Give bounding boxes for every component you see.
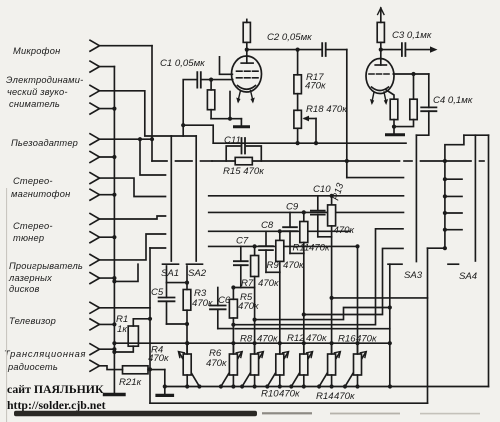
node pot — [355, 341, 359, 345]
tube V1 screen stub — [220, 57, 233, 75]
wire SA1 contact y248 — [150, 247, 166, 249]
input jack J10 — [90, 232, 100, 243]
tube V1 anode — [241, 57, 253, 64]
ground V2 — [387, 133, 404, 136]
resistor R2 1k — [123, 366, 149, 374]
wire ch2 to ground bus — [100, 66, 115, 68]
C6 label — [218, 295, 231, 306]
node pot — [185, 341, 189, 345]
wire SA3 pole drop — [415, 135, 417, 261]
svg-text:Трансляционная: Трансляционная — [4, 349, 86, 359]
node ground bus ch8 — [112, 193, 116, 197]
input jack J7 — [90, 173, 100, 184]
tube V2 grid dashes — [369, 73, 389, 75]
capacitor C10 — [311, 211, 325, 215]
SA4 contact stub y196 — [445, 195, 462, 197]
wire C8 riser — [265, 231, 267, 246]
svg-text:Пьезоадаптер: Пьезоадаптер — [11, 138, 78, 148]
capacitor C9 — [283, 227, 297, 231]
node line-a R13 — [330, 296, 334, 300]
potentiometer R16 — [345, 343, 366, 386]
capacitor C4 — [416, 74, 436, 135]
wire ch13 TV input — [100, 307, 151, 309]
R4 label — [148, 345, 169, 365]
capacitor C2 — [322, 43, 347, 56]
svg-text:R21к: R21к — [119, 377, 142, 388]
wire zigzag to SA4 bus — [445, 135, 464, 248]
node cathode rail — [228, 117, 232, 121]
svg-text:SA1: SA1 — [161, 268, 179, 279]
svg-text:Проигрыватель: Проигрыватель — [9, 261, 83, 271]
svg-text:R14: R14 — [316, 391, 334, 402]
node C1 feed — [181, 123, 185, 127]
svg-text:1к: 1к — [117, 324, 127, 335]
wire ch4 — [100, 108, 115, 110]
site url — [7, 398, 106, 412]
svg-text:470к: 470к — [283, 260, 304, 271]
potentiometer R14 — [319, 343, 340, 386]
node C10 top — [330, 194, 334, 198]
wire bus L4 — [209, 245, 358, 247]
wire ch10 — [100, 236, 115, 238]
wire bottom return y403 — [150, 402, 428, 404]
input jack J5 — [90, 134, 100, 145]
capacitor C6 — [210, 306, 226, 310]
svg-text:R16: R16 — [338, 334, 356, 345]
wire C8 block bottom — [266, 271, 280, 273]
wire cathode-grid rail — [211, 118, 241, 120]
input jack J2 — [90, 61, 100, 72]
R14 label — [316, 391, 355, 402]
capacitor C1 — [183, 72, 213, 143]
node V1 grid — [209, 78, 213, 82]
wire to ground V1 — [240, 119, 242, 126]
input jack J3 — [90, 85, 100, 96]
svg-text:C4 0,1мк: C4 0,1мк — [433, 95, 473, 106]
wire ch7 to SA1 contact — [100, 178, 166, 196]
svg-text:Телевизор: Телевизор — [9, 316, 56, 326]
switch SA4 throw dash — [448, 263, 459, 265]
wire drop to pot R16 — [357, 246, 359, 354]
input jack J11 — [90, 254, 100, 265]
scan border faint tail — [262, 412, 312, 414]
svg-text:470к: 470к — [334, 391, 355, 402]
svg-text:магнитофон: магнитофон — [11, 189, 70, 199]
wire ground bus vertical — [113, 67, 115, 393]
input jack J1 — [90, 40, 100, 51]
capacitor C11 — [226, 138, 261, 161]
node pot — [253, 341, 257, 345]
wire right bracket down — [488, 135, 490, 386]
svg-text:470к: 470к — [257, 334, 278, 345]
staircase wire S3 riser to SA3 contact — [233, 229, 403, 325]
node C7R5 join — [231, 285, 235, 289]
node rail v390 — [388, 384, 392, 388]
wire mic down — [151, 46, 153, 161]
wire drop to pot R14 — [331, 237, 333, 354]
C11 label — [224, 135, 241, 146]
wire V2 plate up — [380, 50, 382, 60]
input label Проигрыватель лазерных дисков — [8, 261, 83, 294]
svg-text:тюнер: тюнер — [13, 233, 44, 243]
C8 label — [261, 220, 304, 271]
staircase wire S2 riser to SA3 contact — [304, 248, 403, 314]
node ground bus ch12 — [112, 276, 116, 280]
node R17 tap — [296, 48, 300, 52]
input jack J8 — [90, 189, 100, 200]
node R3 bottom — [185, 322, 189, 326]
svg-text:SA4: SA4 — [459, 271, 477, 282]
input jack J14 — [90, 319, 100, 330]
wire ch15 — [100, 348, 115, 350]
tube V2 anode — [375, 60, 386, 66]
node R16 top — [355, 244, 359, 248]
node SA2 block — [185, 281, 189, 285]
wire C7 riser — [240, 246, 242, 261]
tube V1 heater arrows — [236, 91, 255, 104]
wire SA3 output drop v390 — [389, 264, 391, 386]
wire R3 to pot R4 — [186, 324, 188, 354]
R6 label — [206, 348, 227, 369]
resistor R9 — [279, 231, 281, 240]
resistor R20 grid V1 — [207, 80, 214, 119]
node rail G2 — [163, 384, 167, 388]
RC block C6 R5 — [210, 288, 237, 355]
wire drop to pot R10 — [279, 272, 281, 354]
node ground bus ch14 — [112, 322, 116, 326]
R16 label — [338, 334, 377, 345]
wire stub y177.6 — [347, 177, 404, 179]
node pot — [343, 384, 347, 388]
capacitor C3 — [402, 43, 434, 56]
node ground bus ch15 — [112, 347, 116, 351]
input label Телевизор — [9, 316, 56, 326]
svg-text:470к: 470к — [309, 243, 330, 254]
wire R15 to right — [252, 160, 399, 162]
wire V1 grid left — [202, 79, 232, 81]
wire C7 block bottom — [233, 287, 254, 289]
R18 label — [306, 104, 347, 115]
resistor R5 — [229, 299, 237, 318]
capacitor C7 — [234, 261, 248, 265]
node V2 plate — [379, 48, 383, 52]
SA4 contact stub y213 — [445, 212, 462, 214]
resistor R15 — [235, 157, 252, 164]
svg-text:лазерных: лазерных — [8, 273, 52, 283]
input jack J4 — [90, 103, 100, 114]
node V2 cathode gnd — [392, 125, 396, 129]
svg-text:C6: C6 — [218, 295, 231, 306]
tube V1 envelope — [232, 56, 262, 92]
switch SA3 throw dash — [388, 263, 402, 265]
node ground bus y343 — [112, 341, 116, 345]
wire V2 grid right — [393, 73, 429, 75]
node ground bus y352 — [112, 350, 116, 354]
svg-text:C9: C9 — [286, 202, 299, 213]
node SA4 stub2 — [443, 194, 447, 198]
svg-text:сайт ПАЯЛЬНИК: сайт ПАЯЛЬНИК — [7, 382, 104, 396]
wire bus L2 — [209, 211, 404, 213]
node SA4 stub3 — [443, 211, 447, 215]
SA2 label — [188, 268, 207, 279]
output arrow — [430, 46, 438, 52]
wire x164 down to ground — [164, 370, 166, 395]
RC block C8 R9 — [259, 231, 284, 354]
node pot — [278, 341, 282, 345]
wire right bracket top — [464, 134, 489, 136]
svg-text:Стерео-: Стерео- — [13, 176, 53, 186]
staircase wire S1 — [255, 308, 390, 320]
input label Трансляционная радиосеть — [4, 349, 86, 372]
RC block C7 R7 — [233, 246, 258, 354]
wire SA4 return drop — [427, 248, 429, 403]
node SA4 stub4 — [443, 228, 447, 232]
svg-text:470к: 470к — [238, 301, 259, 312]
wire R17-R18 — [297, 94, 299, 111]
wire vertical x150 — [149, 248, 151, 403]
input jack J13 — [90, 302, 100, 313]
wire bus L1 — [209, 195, 404, 197]
node pot — [265, 384, 269, 388]
wire ch12 — [100, 277, 115, 279]
svg-text:C7: C7 — [236, 236, 249, 247]
wire drop to pot R12 — [303, 253, 305, 354]
svg-text:C2 0,05мк: C2 0,05мк — [267, 32, 312, 43]
svg-text:дисков: дисков — [9, 284, 40, 294]
R15 label — [223, 166, 264, 177]
wire R2 right — [148, 369, 165, 371]
capacitor C5 — [159, 283, 175, 324]
input jack J12 — [90, 273, 100, 284]
potentiometer R10 — [267, 343, 288, 386]
wire bus spur to switch area — [114, 264, 138, 281]
wire link y341 — [114, 342, 390, 344]
node SA4 bus y161 — [443, 159, 447, 163]
svg-text:ческий звуко-: ческий звуко- — [7, 87, 68, 97]
node bus spur — [112, 279, 116, 283]
input label Электродинамический звукосниматель — [6, 75, 83, 109]
wire bus line y143 — [213, 142, 406, 144]
wire R17 top — [297, 50, 299, 75]
svg-text:R18 470к: R18 470к — [306, 104, 347, 115]
svg-text:R8: R8 — [240, 334, 253, 345]
wire C5R3 bottom rail — [167, 323, 188, 325]
svg-text:SA3: SA3 — [404, 270, 423, 281]
svg-text:470к: 470к — [334, 225, 355, 236]
ground V1 — [235, 125, 249, 128]
SA4 contact stub y179 — [445, 178, 462, 180]
node V1 plate — [245, 48, 249, 52]
node pot — [330, 341, 334, 345]
label band top line — [235, 328, 389, 330]
node ground bus ch4 — [112, 107, 116, 111]
wire ch16 to R2 — [100, 366, 123, 370]
svg-text:R10: R10 — [261, 389, 279, 400]
tube V1 cathode — [238, 86, 256, 90]
input label Микрофон — [13, 46, 60, 56]
potentiometer R6 — [221, 343, 242, 386]
switch gang dashed link right — [404, 160, 412, 162]
node pot — [231, 341, 235, 345]
C1 label — [160, 58, 205, 69]
input jack J9 — [90, 214, 100, 225]
ground G1 — [105, 393, 125, 396]
svg-text:470к: 470к — [306, 333, 327, 344]
C2 label — [267, 32, 312, 43]
R3 label — [192, 288, 213, 309]
svg-text:R7: R7 — [241, 278, 254, 289]
node SA4 rail — [443, 246, 447, 250]
wire C9 riser — [289, 212, 291, 227]
R8 label — [240, 334, 278, 345]
svg-text:470к: 470к — [258, 278, 279, 289]
wire C9 block bottom — [290, 252, 304, 254]
svg-text:R15 470к: R15 470к — [223, 166, 264, 177]
wire V1 cathode down — [229, 92, 231, 119]
wire SA2 wiper down — [186, 266, 188, 290]
wire C10 riser — [317, 196, 319, 211]
potentiometer R4 — [178, 343, 199, 386]
node pot — [355, 384, 359, 388]
ground G2 — [157, 394, 173, 397]
svg-text:C3 0,1мк: C3 0,1мк — [392, 30, 432, 41]
node SA4 stub1 — [443, 177, 447, 181]
svg-text:Электродинами-: Электродинами- — [6, 75, 83, 85]
R1 label — [116, 314, 128, 335]
wire R1 top — [133, 319, 150, 326]
svg-text:470к: 470к — [206, 358, 227, 369]
R2 label — [119, 377, 142, 388]
switch SA2 throw dash — [187, 263, 203, 265]
node pot — [240, 384, 244, 388]
resistor R24 grid V2 — [394, 74, 417, 127]
C10 label — [313, 181, 355, 236]
svg-text:http://solder.cjb.net: http://solder.cjb.net — [7, 398, 106, 412]
input jack J15 — [90, 344, 100, 355]
node R7 top — [253, 244, 257, 248]
svg-text:R11: R11 — [293, 243, 310, 254]
wire mic horizontal — [100, 45, 153, 47]
switch SA1 pole bar — [170, 136, 172, 261]
node R2 x150 — [148, 367, 152, 371]
SA4 contact stub y230 — [445, 229, 462, 231]
C9 label — [286, 202, 330, 254]
svg-text:C8: C8 — [261, 220, 274, 231]
node R3 343 — [185, 341, 189, 345]
switch SA2 pole bar — [195, 136, 197, 261]
wire ch14 — [100, 323, 115, 325]
node R1 top — [148, 317, 152, 321]
wire drop to pot R6 — [232, 329, 234, 354]
scan border bottom — [14, 411, 257, 417]
potentiometer R12 — [291, 343, 312, 386]
wire plate V2 to C3 — [381, 49, 402, 51]
node pot — [231, 384, 235, 388]
input jack J16 — [90, 360, 100, 371]
capacitor C8 — [259, 246, 273, 250]
tube V2 heater arrows — [370, 92, 388, 105]
svg-text:470к: 470к — [192, 298, 213, 309]
wire bottom rail — [165, 386, 489, 388]
svg-text:радиосеть: радиосеть — [7, 362, 58, 372]
svg-text:R9: R9 — [267, 260, 280, 271]
node pot — [330, 384, 334, 388]
node mic-piezo join — [150, 137, 154, 141]
C7 label — [236, 236, 279, 290]
wire SA4 bottom rail — [428, 247, 445, 249]
R5 label — [238, 292, 259, 312]
svg-text:C1 0,05мк: C1 0,05мк — [160, 58, 205, 69]
resistor R1 — [128, 326, 138, 346]
wire R1 bottom to bus — [114, 346, 133, 352]
node S2 — [302, 312, 306, 316]
wire ch9 to SA1 contact — [100, 216, 166, 219]
wire C6 riser — [217, 288, 219, 306]
node ground bus ch10 — [112, 235, 116, 239]
svg-text:C5: C5 — [151, 287, 164, 298]
node R18 bottom — [296, 141, 300, 145]
node pot — [253, 384, 257, 388]
svg-text:Микрофон: Микрофон — [13, 46, 60, 56]
node S1 — [253, 318, 257, 322]
SA3 label — [404, 270, 423, 281]
svg-text:C10: C10 — [313, 184, 331, 195]
wire plate node to C2 — [247, 49, 322, 51]
supply arrow V2 — [378, 8, 384, 15]
input label Стереотюнер — [13, 221, 53, 243]
node pot — [302, 341, 306, 345]
wire ch8 — [100, 194, 115, 196]
resistor R17 — [294, 75, 302, 94]
input label Пьезоадаптер — [11, 138, 78, 148]
resistor R3 — [183, 290, 191, 325]
node piezo stub — [138, 137, 142, 141]
switch gang dashed link left — [152, 160, 167, 162]
node C2 drop — [345, 159, 349, 163]
svg-text:сниматель: сниматель — [9, 99, 60, 109]
svg-text:SA2: SA2 — [188, 268, 207, 279]
wire R5 top — [232, 288, 234, 300]
tube V2 cathode — [372, 87, 389, 91]
wire SA1 wiper down — [166, 266, 168, 283]
resistor R23 cathode V2 — [386, 90, 398, 134]
input label Стереомагнитофон — [11, 176, 70, 199]
node pot — [219, 384, 223, 388]
node wiper y143 — [314, 141, 318, 145]
node C8 top — [278, 229, 282, 233]
resistor R13 — [331, 196, 333, 205]
tube V1 grid dashes — [237, 71, 259, 78]
wire ch11 to SA1 contact — [100, 234, 166, 260]
wire ch5 to SA1 contact — [100, 138, 153, 140]
node C9 top — [302, 210, 306, 214]
resistor R19 plate load V1 — [243, 19, 250, 49]
wire line-a to SA4 return — [332, 297, 428, 299]
svg-text:470к: 470к — [279, 389, 300, 400]
node S3 — [231, 323, 235, 327]
resistor R22 plate load V2 — [377, 8, 384, 50]
wire SA1-SA2 top join — [171, 135, 196, 137]
resistor R11 — [303, 212, 305, 221]
wire C6 block bottom — [218, 328, 234, 330]
node pot — [302, 384, 306, 388]
wire SA4 pole — [474, 135, 476, 261]
node pot — [289, 384, 293, 388]
scan crease left — [6, 188, 7, 422]
wire drop to pot R8 — [254, 288, 256, 355]
C4 label — [433, 95, 473, 106]
node v390 line343 — [388, 341, 392, 345]
